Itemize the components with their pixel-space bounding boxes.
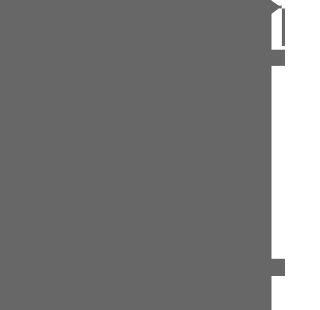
scrollbar segment (top right edge) — [282, 9, 285, 47]
arrow pointer (top right) — [271, 0, 282, 14]
gray band row 1 — [271, 50, 285, 66]
gray band row 2 — [271, 259, 285, 276]
